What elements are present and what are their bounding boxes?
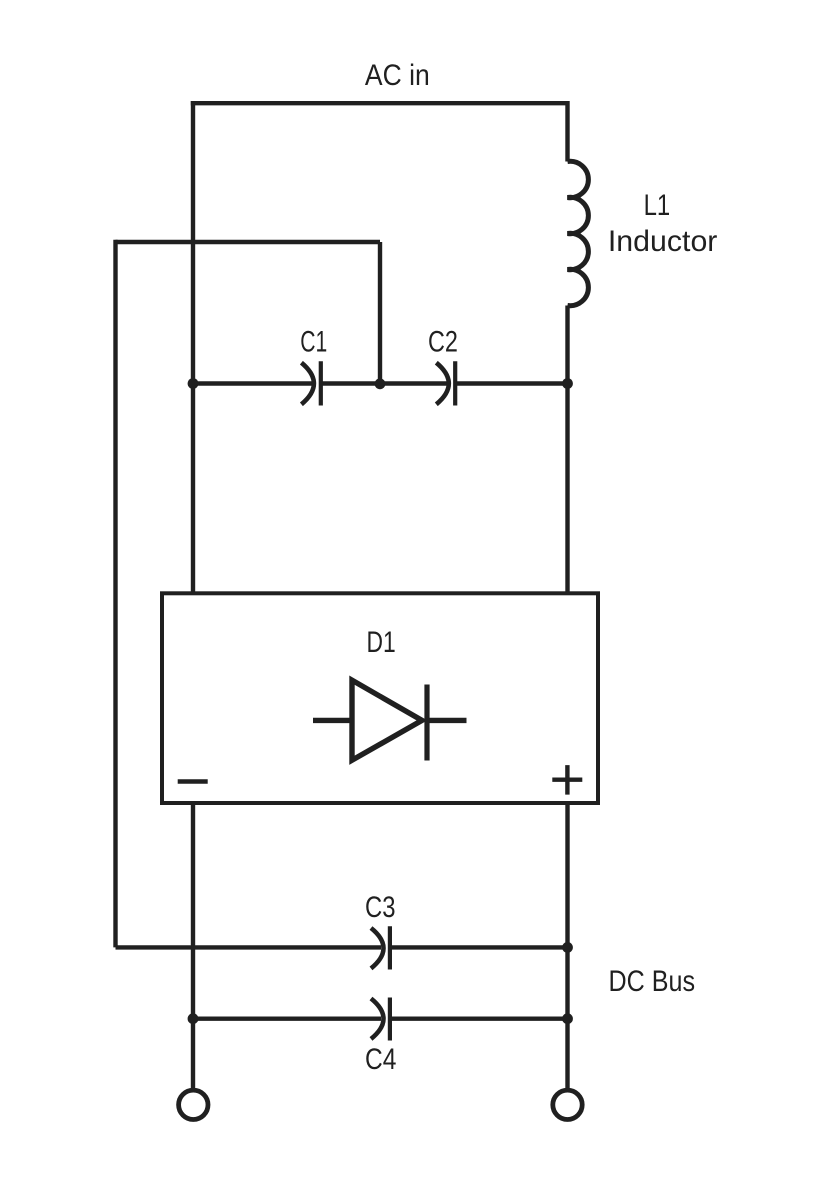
wire C4 row right segment: [392, 1017, 568, 1021]
wire top horizontal AC in: [191, 101, 568, 105]
wire left vertical below box to terminal: [191, 803, 195, 1090]
wire far-left vertical: [113, 240, 117, 948]
capacitor C3 straight plate: [388, 926, 392, 969]
junction node C4 left: [188, 1013, 199, 1024]
svg-text:C2: C2: [428, 326, 458, 359]
wire right vertical above inductor: [565, 101, 569, 162]
bridge rectifier box D1: [162, 593, 598, 803]
wire capacitor row right-middle segment: [380, 381, 447, 385]
svg-text:Inductor: Inductor: [608, 225, 718, 258]
capacitor C2 straight plate: [453, 361, 457, 405]
svg-text:DC Bus: DC Bus: [609, 965, 696, 998]
svg-text:L1: L1: [644, 189, 671, 222]
wire horizontal upper-left branch: [116, 240, 381, 244]
svg-text:C4: C4: [365, 1043, 396, 1076]
junction node C1-C2 middle: [375, 378, 386, 389]
capacitor C4 curved plate: [371, 999, 384, 1039]
capacitor C4 straight plate: [388, 998, 392, 1041]
capacitor C1 straight plate: [319, 361, 323, 405]
terminal circle left: [179, 1090, 208, 1119]
junction node C4 right: [562, 1013, 573, 1024]
wire right vertical below inductor: [565, 306, 569, 594]
junction node C3 right: [562, 942, 573, 953]
diode D1 cathode bar: [424, 685, 429, 761]
wire capacitor row right segment: [457, 381, 568, 385]
capacitor C1 curved plate: [301, 363, 314, 405]
wire C3 row left segment: [116, 945, 382, 949]
svg-text:C1: C1: [300, 326, 327, 359]
diode D1 cathode wire: [427, 718, 467, 723]
wire C3 row right segment: [392, 945, 568, 949]
svg-text:AC in: AC in: [365, 59, 430, 92]
diode D1 triangle: [352, 680, 422, 760]
plus polarity mark: [552, 765, 582, 795]
wire C4 row left segment: [193, 1017, 381, 1021]
wire right vertical below box to terminal: [565, 803, 569, 1090]
junction node C2 right: [562, 378, 573, 389]
wire capacitor row middle segment: [323, 381, 381, 385]
capacitor C2 curved plate: [436, 363, 449, 405]
wire capacitor row left segment: [193, 381, 313, 385]
minus polarity mark: [178, 779, 208, 783]
capacitor C3 curved plate: [371, 928, 384, 968]
wire left vertical from top to bridge box: [191, 101, 195, 593]
wire mid vertical to C1-C2 node: [378, 242, 382, 384]
junction node C1 left: [188, 378, 199, 389]
svg-text:C3: C3: [365, 891, 396, 924]
terminal circle right: [553, 1090, 582, 1119]
svg-text:D1: D1: [367, 626, 396, 659]
diode D1 anode wire: [313, 718, 352, 723]
inductor L1 coil: [568, 161, 589, 305]
